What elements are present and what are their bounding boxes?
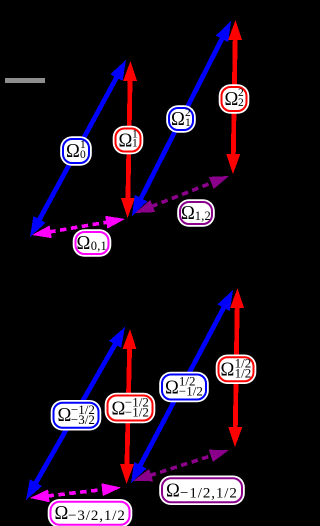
red arrow Omega_-1/2^-1/2 — [120, 329, 137, 484]
red arrow Omega_1^1 — [121, 61, 137, 218]
purple dashed arrow Omega_1,2 — [135, 176, 229, 213]
red arrow Omega_1/2^1/2 — [228, 288, 244, 447]
red arrow Omega_2^2 — [226, 20, 242, 174]
label Omega_0,1 — [74, 231, 109, 255]
label Omega_1,2 — [179, 201, 213, 225]
blue arrow Omega_-1/2^1/2 — [131, 290, 233, 483]
blue arrow Omega_-3/2^-1/2 — [26, 327, 125, 500]
label Omega_1^1 — [115, 128, 142, 153]
magenta dashed arrow Omega_-3/2,1/2 — [30, 483, 121, 502]
label Omega_-1/2^1/2 — [161, 374, 207, 401]
blue arrow Omega_0^1 — [30, 60, 126, 237]
label Omega_-3/2^-1/2 — [53, 402, 100, 429]
purple dashed arrow Omega_-1/2,1/2 — [133, 450, 229, 482]
blue arrow Omega_1^2 — [132, 21, 231, 216]
label Omega_-1/2^-1/2 — [107, 394, 154, 421]
gray level bar — [5, 78, 45, 83]
magenta dashed arrow Omega_0,1 — [32, 216, 125, 238]
label Omega_-1/2,1/2 — [161, 477, 243, 503]
label Omega_1/2^1/2 — [217, 356, 254, 382]
label Omega_-3/2,1/2 — [50, 501, 131, 526]
label Omega_1^2 — [168, 107, 194, 131]
label Omega_0^1 — [62, 138, 90, 164]
label Omega_2^2 — [221, 86, 248, 112]
